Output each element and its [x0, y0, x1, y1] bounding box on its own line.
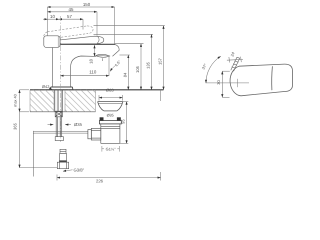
hatch block edges [30, 90, 96, 112]
svg-text:10: 10 [50, 14, 55, 19]
svg-text:G3/8": G3/8" [74, 168, 85, 173]
spout tip [113, 44, 120, 56]
detail dim 24 [227, 57, 243, 63]
svg-text:1,5°: 1,5° [114, 59, 122, 67]
svg-text:135: 135 [146, 61, 151, 68]
aerator [96, 54, 110, 61]
dimension 57 [59, 19, 83, 29]
lever center marks [206, 79, 250, 87]
angle 1.5 deg label with leader [110, 65, 116, 72]
detail angle 37 arc [206, 56, 221, 83]
threaded shank below counter [55, 90, 63, 137]
base plate [50, 87, 72, 89]
svg-text:45: 45 [69, 7, 74, 12]
svg-text:Ø35: Ø35 [107, 114, 114, 118]
waste flange [99, 121, 121, 144]
column left edge [52, 48, 54, 87]
detail dim 30 [222, 71, 230, 97]
hose end connector [57, 149, 68, 168]
svg-text:Ø63: Ø63 [106, 87, 114, 92]
svg-text:365: 365 [12, 122, 17, 129]
dimension 10 [43, 18, 59, 20]
svg-text:max 40: max 40 [13, 94, 17, 106]
waste thread label G1 1/4 [102, 146, 120, 152]
handle knob (solid) [44, 36, 60, 48]
extension for 84 [120, 54, 130, 56]
pop-up rod vertical [32, 133, 34, 176]
svg-text:Ø42: Ø42 [42, 84, 49, 89]
hose end block [55, 137, 63, 141]
dimension 226 [57, 90, 161, 181]
dimension 135 [151, 35, 153, 90]
counter hatching right of shank [65, 90, 96, 112]
stream extension line [108, 57, 110, 76]
lever outline [230, 64, 292, 96]
waste left inlet [88, 128, 101, 140]
extension line 157 level (handle raised top) [94, 25, 165, 27]
waste seals (filled) [100, 117, 104, 120]
svg-text:150: 150 [83, 2, 91, 7]
tip inner notch [97, 37, 99, 44]
counter top line [30, 89, 164, 91]
waste cap [98, 102, 123, 111]
counter bottom line [30, 111, 96, 113]
label G3/8 with arrow [63, 170, 73, 171]
svg-text:Ø35: Ø35 [74, 122, 83, 127]
counter hatching left block [30, 90, 54, 112]
extension line 105 level [115, 43, 144, 45]
svg-text:84: 84 [122, 72, 127, 77]
dimension 150 top [48, 7, 115, 44]
svg-text:24: 24 [229, 51, 235, 58]
pop-up rod horizontal [33, 131, 88, 134]
svg-text:95: 95 [121, 119, 126, 124]
waste dim 63 line [99, 95, 123, 101]
dimension 84 [127, 55, 129, 90]
svg-text:37°: 37° [201, 62, 208, 70]
dimension 157 [163, 26, 165, 90]
svg-text:30: 30 [216, 80, 221, 85]
dimension hole 35 [48, 124, 72, 126]
dimension 45 [48, 12, 98, 36]
handle lever blade (solid, closed) [60, 36, 104, 44]
svg-text:G1¼": G1¼" [106, 146, 116, 151]
dimension max 40 [20, 90, 30, 112]
dimension 365 [20, 112, 58, 168]
centerline (dash-dot) upper part [60, 16, 62, 46]
svg-text:57: 57 [67, 14, 72, 19]
dimension 110 [61, 75, 110, 77]
body top thick line (spout top) [60, 43, 115, 45]
knob inner edge [57, 36, 59, 47]
svg-text:157: 157 [158, 57, 163, 64]
handle raised dashed outline [44, 26, 93, 42]
dimension 105 [140, 44, 142, 90]
centerline (dash-dot) [60, 46, 62, 142]
waste dimension 95 [120, 102, 128, 144]
shank nut with cross [55, 111, 62, 117]
svg-text:105: 105 [135, 65, 140, 72]
raised stem [231, 57, 240, 71]
extension line 135 level (handle top) [94, 33, 154, 35]
svg-text:226: 226 [96, 179, 104, 184]
dimension 18 [94, 45, 96, 56]
svg-text:18: 18 [89, 59, 94, 64]
spout underside and column [71, 56, 97, 87]
svg-text:110: 110 [89, 70, 97, 75]
